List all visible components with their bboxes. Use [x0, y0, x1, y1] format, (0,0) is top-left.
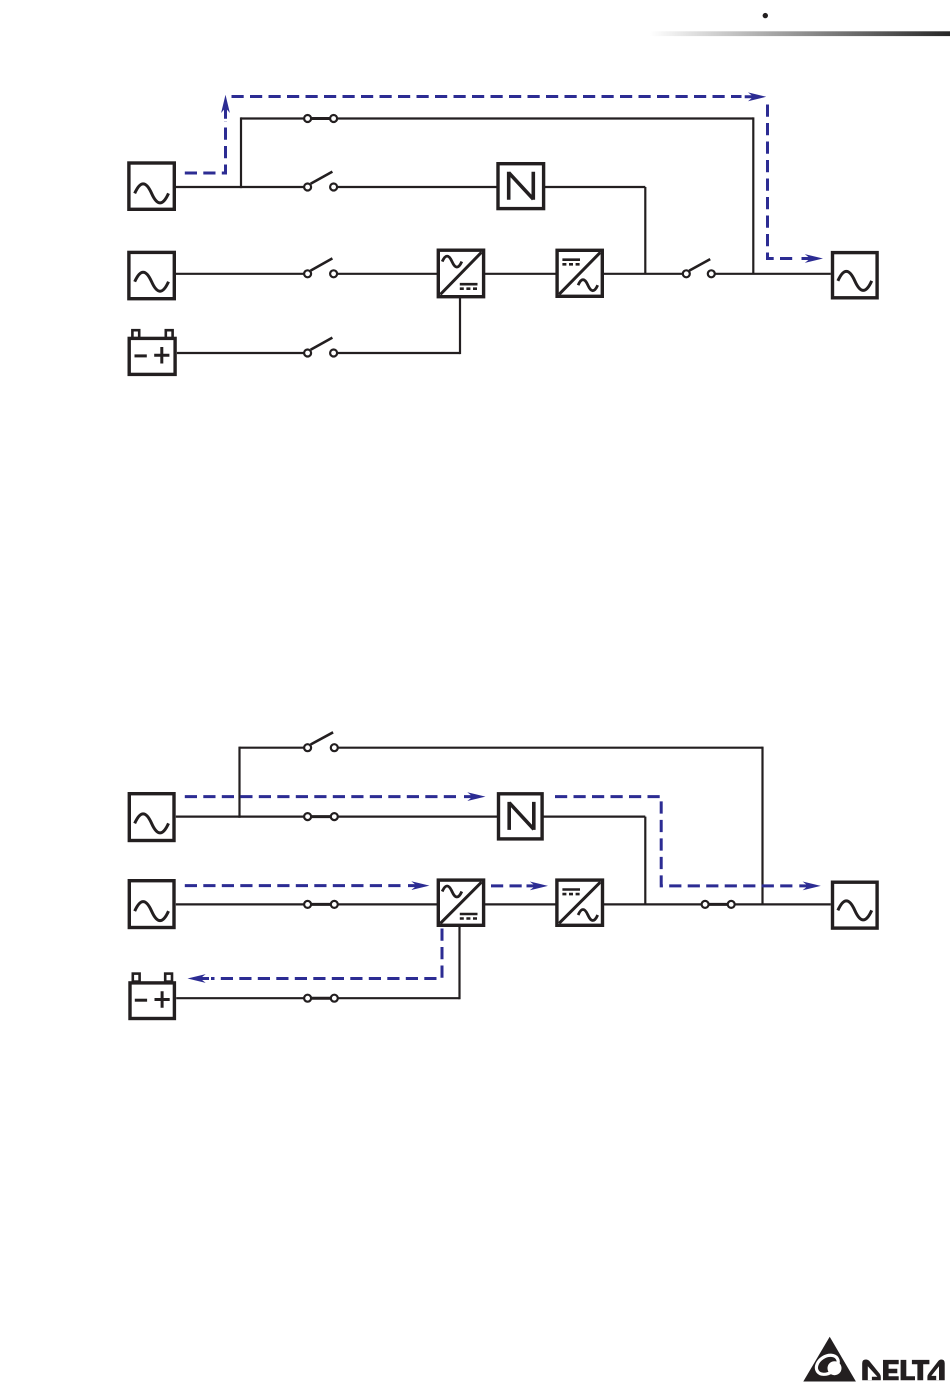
wire: inverter to load (closed output breaker) — [603, 903, 831, 905]
wire: breaker Q5 to load — [711, 273, 831, 275]
wire: static-switch output drop — [644, 817, 646, 905]
Delta wordmark letter T — [912, 1360, 930, 1380]
load sine symbol (bottom) — [838, 901, 872, 920]
inverter DC mark — [562, 260, 580, 265]
header gradient rule — [650, 31, 950, 36]
Delta logo triangle mark — [803, 1337, 856, 1382]
AC source 2 sine symbol — [135, 272, 169, 291]
power flow dashed: AC2 to rectifier — [185, 884, 404, 887]
breaker AC-input (closed) — [304, 813, 338, 820]
power flow arrowhead up — [221, 95, 230, 119]
AC source 2 box (bottom) — [129, 881, 174, 928]
header bullet dot — [763, 13, 768, 18]
AC source 1 box — [129, 163, 174, 209]
battery body (bottom) — [130, 983, 174, 1019]
wire: AC source 2 to rectifier — [176, 903, 438, 905]
breaker Q2 AC-input (open) — [304, 172, 337, 191]
Delta wordmark letter L — [901, 1360, 915, 1380]
battery minus mark (bottom) — [135, 999, 147, 1002]
AC source 1 sine symbol (bottom) — [135, 814, 169, 833]
breaker Q4 battery (open) — [304, 338, 337, 357]
battery plus mark (bottom) — [155, 991, 170, 1008]
battery B1 body — [129, 338, 175, 374]
static transfer switch N glyph — [509, 172, 534, 200]
inverter AC sine mark — [578, 280, 598, 291]
rectifier box (bottom) — [438, 880, 483, 925]
wire: maintenance bypass top line — [241, 117, 753, 119]
wire: AC source 1 to breaker Q2 — [176, 186, 308, 188]
power flow dashed: AC1 to static switch — [185, 795, 461, 798]
power flow arrowhead left (into battery) — [188, 974, 210, 983]
battery minus mark — [135, 354, 147, 357]
wire: rectifier to inverter — [484, 273, 557, 275]
wire: static-switch box to output drop — [534, 815, 646, 817]
Delta logo swirl ring — [813, 1351, 842, 1378]
power flow arrowhead right (into rectifier) — [408, 881, 430, 890]
wire: battery to rectifier riser (closed breaker) — [176, 997, 459, 999]
inverter box (bottom) — [557, 880, 603, 925]
battery plus mark — [154, 347, 169, 364]
AC source 1 box (bottom) — [129, 794, 174, 841]
wire: bypass drop to load bus — [752, 117, 754, 273]
breaker rectifier-input (closed) — [304, 901, 338, 908]
wire: AC source 1 to static-switch box — [176, 815, 509, 817]
inverter AC sine mark (bottom) — [578, 910, 598, 921]
static transfer switch U2 box — [498, 164, 544, 209]
wire: maintenance bypass top line left — [240, 747, 308, 749]
Delta wordmark letter D — [862, 1360, 881, 1381]
power flow arrowhead right (into static switch) — [464, 792, 486, 801]
Delta logo swirl ball — [828, 1361, 842, 1375]
power flow dashed: rectifier down to battery — [211, 929, 442, 979]
wire: breaker Q3 to rectifier — [334, 273, 438, 275]
wire: breaker Q2 to static-switch box — [334, 186, 509, 188]
wire: bypass riser — [238, 747, 240, 818]
wire: static-switch box to output drop — [533, 186, 645, 188]
power flow dashed: bypass top run — [232, 95, 742, 98]
inverter U4 box — [557, 250, 602, 296]
breaker maintenance bypass (open) — [304, 732, 338, 751]
battery terminal posts (bottom) — [133, 974, 172, 982]
power flow arrowhead right (into load, bottom) — [799, 882, 821, 891]
Delta wordmark letter A — [927, 1360, 944, 1381]
power flow dashed: static switch to load bus — [555, 797, 796, 886]
power flow arrowhead right (into inverter) — [527, 882, 549, 891]
wire: bypass drop to load bus — [761, 747, 763, 905]
inverter diagonal — [559, 252, 600, 294]
Delta wordmark letter E — [883, 1360, 899, 1380]
breaker battery (closed) — [304, 995, 338, 1002]
breaker Q3 rectifier-input (open) — [304, 258, 337, 277]
rectifier AC sine mark — [442, 256, 462, 267]
wire: static-switch output drop — [644, 187, 646, 274]
rectifier AC sine mark (bottom) — [442, 886, 462, 897]
static transfer switch N glyph (bottom) — [509, 802, 534, 830]
wire: battery riser to rectifier — [459, 298, 461, 355]
load sine symbol — [838, 271, 872, 290]
wire: inverter to breaker Q5 — [602, 273, 686, 275]
rectifier U3 box — [438, 250, 483, 297]
breaker output (closed) — [702, 901, 735, 908]
rectifier DC mark — [460, 284, 478, 289]
wire: battery to breaker Q4 — [177, 352, 308, 354]
static transfer switch box (bottom) — [499, 794, 543, 839]
power flow dashed: rectifier to inverter — [491, 884, 523, 887]
AC source 2 sine symbol (bottom) — [135, 902, 169, 921]
power flow dashed: AC1 up to bypass — [185, 121, 226, 173]
wire: bypass riser at node A — [240, 117, 242, 188]
load box (bottom) — [833, 882, 878, 928]
breaker Q5 output (open) — [683, 259, 715, 277]
wire: breaker Q4 to battery riser — [334, 352, 460, 354]
wire: maintenance bypass top line right — [334, 747, 762, 749]
inverter DC mark (bottom) — [562, 890, 580, 895]
wire: battery riser to rectifier (bottom) — [458, 926, 460, 1000]
rectifier DC mark (bottom) — [460, 914, 478, 919]
rectifier diagonal — [440, 252, 481, 294]
power flow arrowhead right (into load) — [802, 254, 824, 263]
rectifier diagonal (bottom) — [440, 882, 481, 923]
AC source 2 box — [129, 252, 174, 298]
battery B1 terminal posts — [132, 330, 172, 338]
load box — [833, 253, 878, 298]
wire: rectifier to inverter (bottom) — [484, 903, 557, 905]
breaker Q1 maintenance bypass (closed) — [304, 115, 337, 122]
inverter diagonal (bottom) — [559, 882, 600, 923]
AC source 1 sine symbol — [135, 184, 169, 203]
power flow arrowhead right (top corner) — [745, 92, 767, 101]
power flow dashed: drop to load — [768, 105, 799, 259]
wire: AC source 2 to breaker Q3 — [176, 273, 308, 275]
